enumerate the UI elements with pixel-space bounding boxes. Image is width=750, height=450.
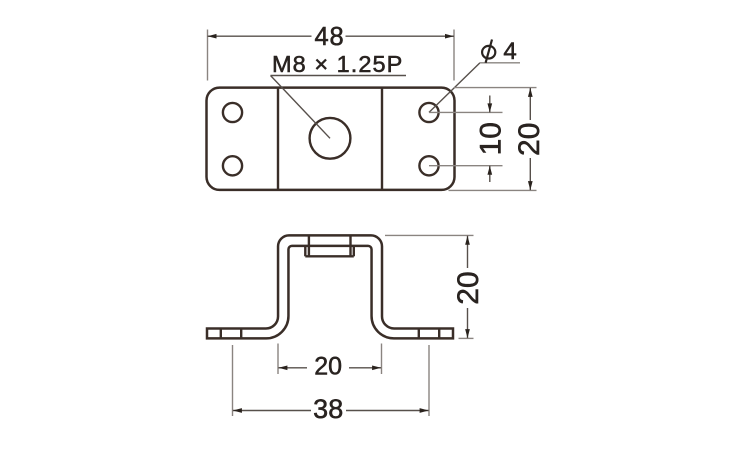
dimension height-20 bottom segment xyxy=(467,308,469,338)
hole top-right xyxy=(419,103,438,122)
svg-text:4: 4 xyxy=(503,38,516,65)
collar hole line left xyxy=(308,235,310,256)
dimension height-20 top segment xyxy=(467,236,469,268)
extension line 48 right xyxy=(453,30,455,81)
center hole M8 xyxy=(310,118,351,159)
extension line 38 right xyxy=(428,345,430,416)
leader line phi4 xyxy=(429,63,480,113)
dimension line 48 right segment xyxy=(346,35,455,37)
svg-text:20: 20 xyxy=(314,353,342,381)
extension line inner-20 left xyxy=(277,344,279,375)
center line hole bottom-right xyxy=(429,165,503,167)
text phi 4 xyxy=(482,40,495,63)
dimension 10 bottom arrow xyxy=(489,166,491,182)
extension line 38 left xyxy=(232,345,234,416)
underline phi4 label xyxy=(480,62,520,64)
collar outer left xyxy=(304,246,306,256)
extension line 48 left xyxy=(207,30,209,81)
collar hole line right xyxy=(349,235,351,256)
bracket profile outline xyxy=(207,235,453,338)
plate outline (rounded rectangle) xyxy=(207,88,455,190)
dimension 10 top arrow xyxy=(489,96,491,113)
flange hole tick right-inner xyxy=(418,329,420,339)
collar outer right xyxy=(353,246,355,256)
flange hole tick left-inner xyxy=(240,329,242,339)
flange hole tick right-outer xyxy=(438,329,440,339)
dimension 38 right segment xyxy=(346,410,429,412)
extension line 20 top xyxy=(454,87,537,89)
dimension 20 bottom segment xyxy=(529,158,531,190)
extension line height-20 bottom xyxy=(459,337,474,339)
svg-text:10: 10 xyxy=(475,122,508,155)
extension line inner-20 right xyxy=(381,344,383,375)
extension line height-20 top xyxy=(385,234,474,236)
flange hole tick left-outer xyxy=(220,329,222,339)
dimension inner-20 right segment xyxy=(349,367,381,369)
leader line M8 xyxy=(271,76,331,139)
hole top-left xyxy=(223,103,242,122)
dimension 38 left segment xyxy=(233,410,311,412)
bend line right xyxy=(381,88,383,190)
dimension inner-20 left segment xyxy=(278,367,307,369)
svg-text:38: 38 xyxy=(313,394,343,424)
svg-text:48: 48 xyxy=(315,23,345,51)
svg-text:M8 × 1.25P: M8 × 1.25P xyxy=(272,51,403,77)
bend line left xyxy=(277,88,279,190)
collar bottom edge xyxy=(305,255,354,257)
center line hole top-right xyxy=(429,111,503,113)
dimension line 48 left segment xyxy=(208,35,312,37)
hole bottom-right xyxy=(419,156,438,175)
extension line 20 bottom xyxy=(449,189,537,191)
hole bottom-left xyxy=(223,156,242,175)
underline M8 label xyxy=(271,75,407,77)
svg-text:20: 20 xyxy=(452,271,485,304)
dimension 20 top segment xyxy=(529,88,531,120)
svg-text:20: 20 xyxy=(513,123,546,156)
